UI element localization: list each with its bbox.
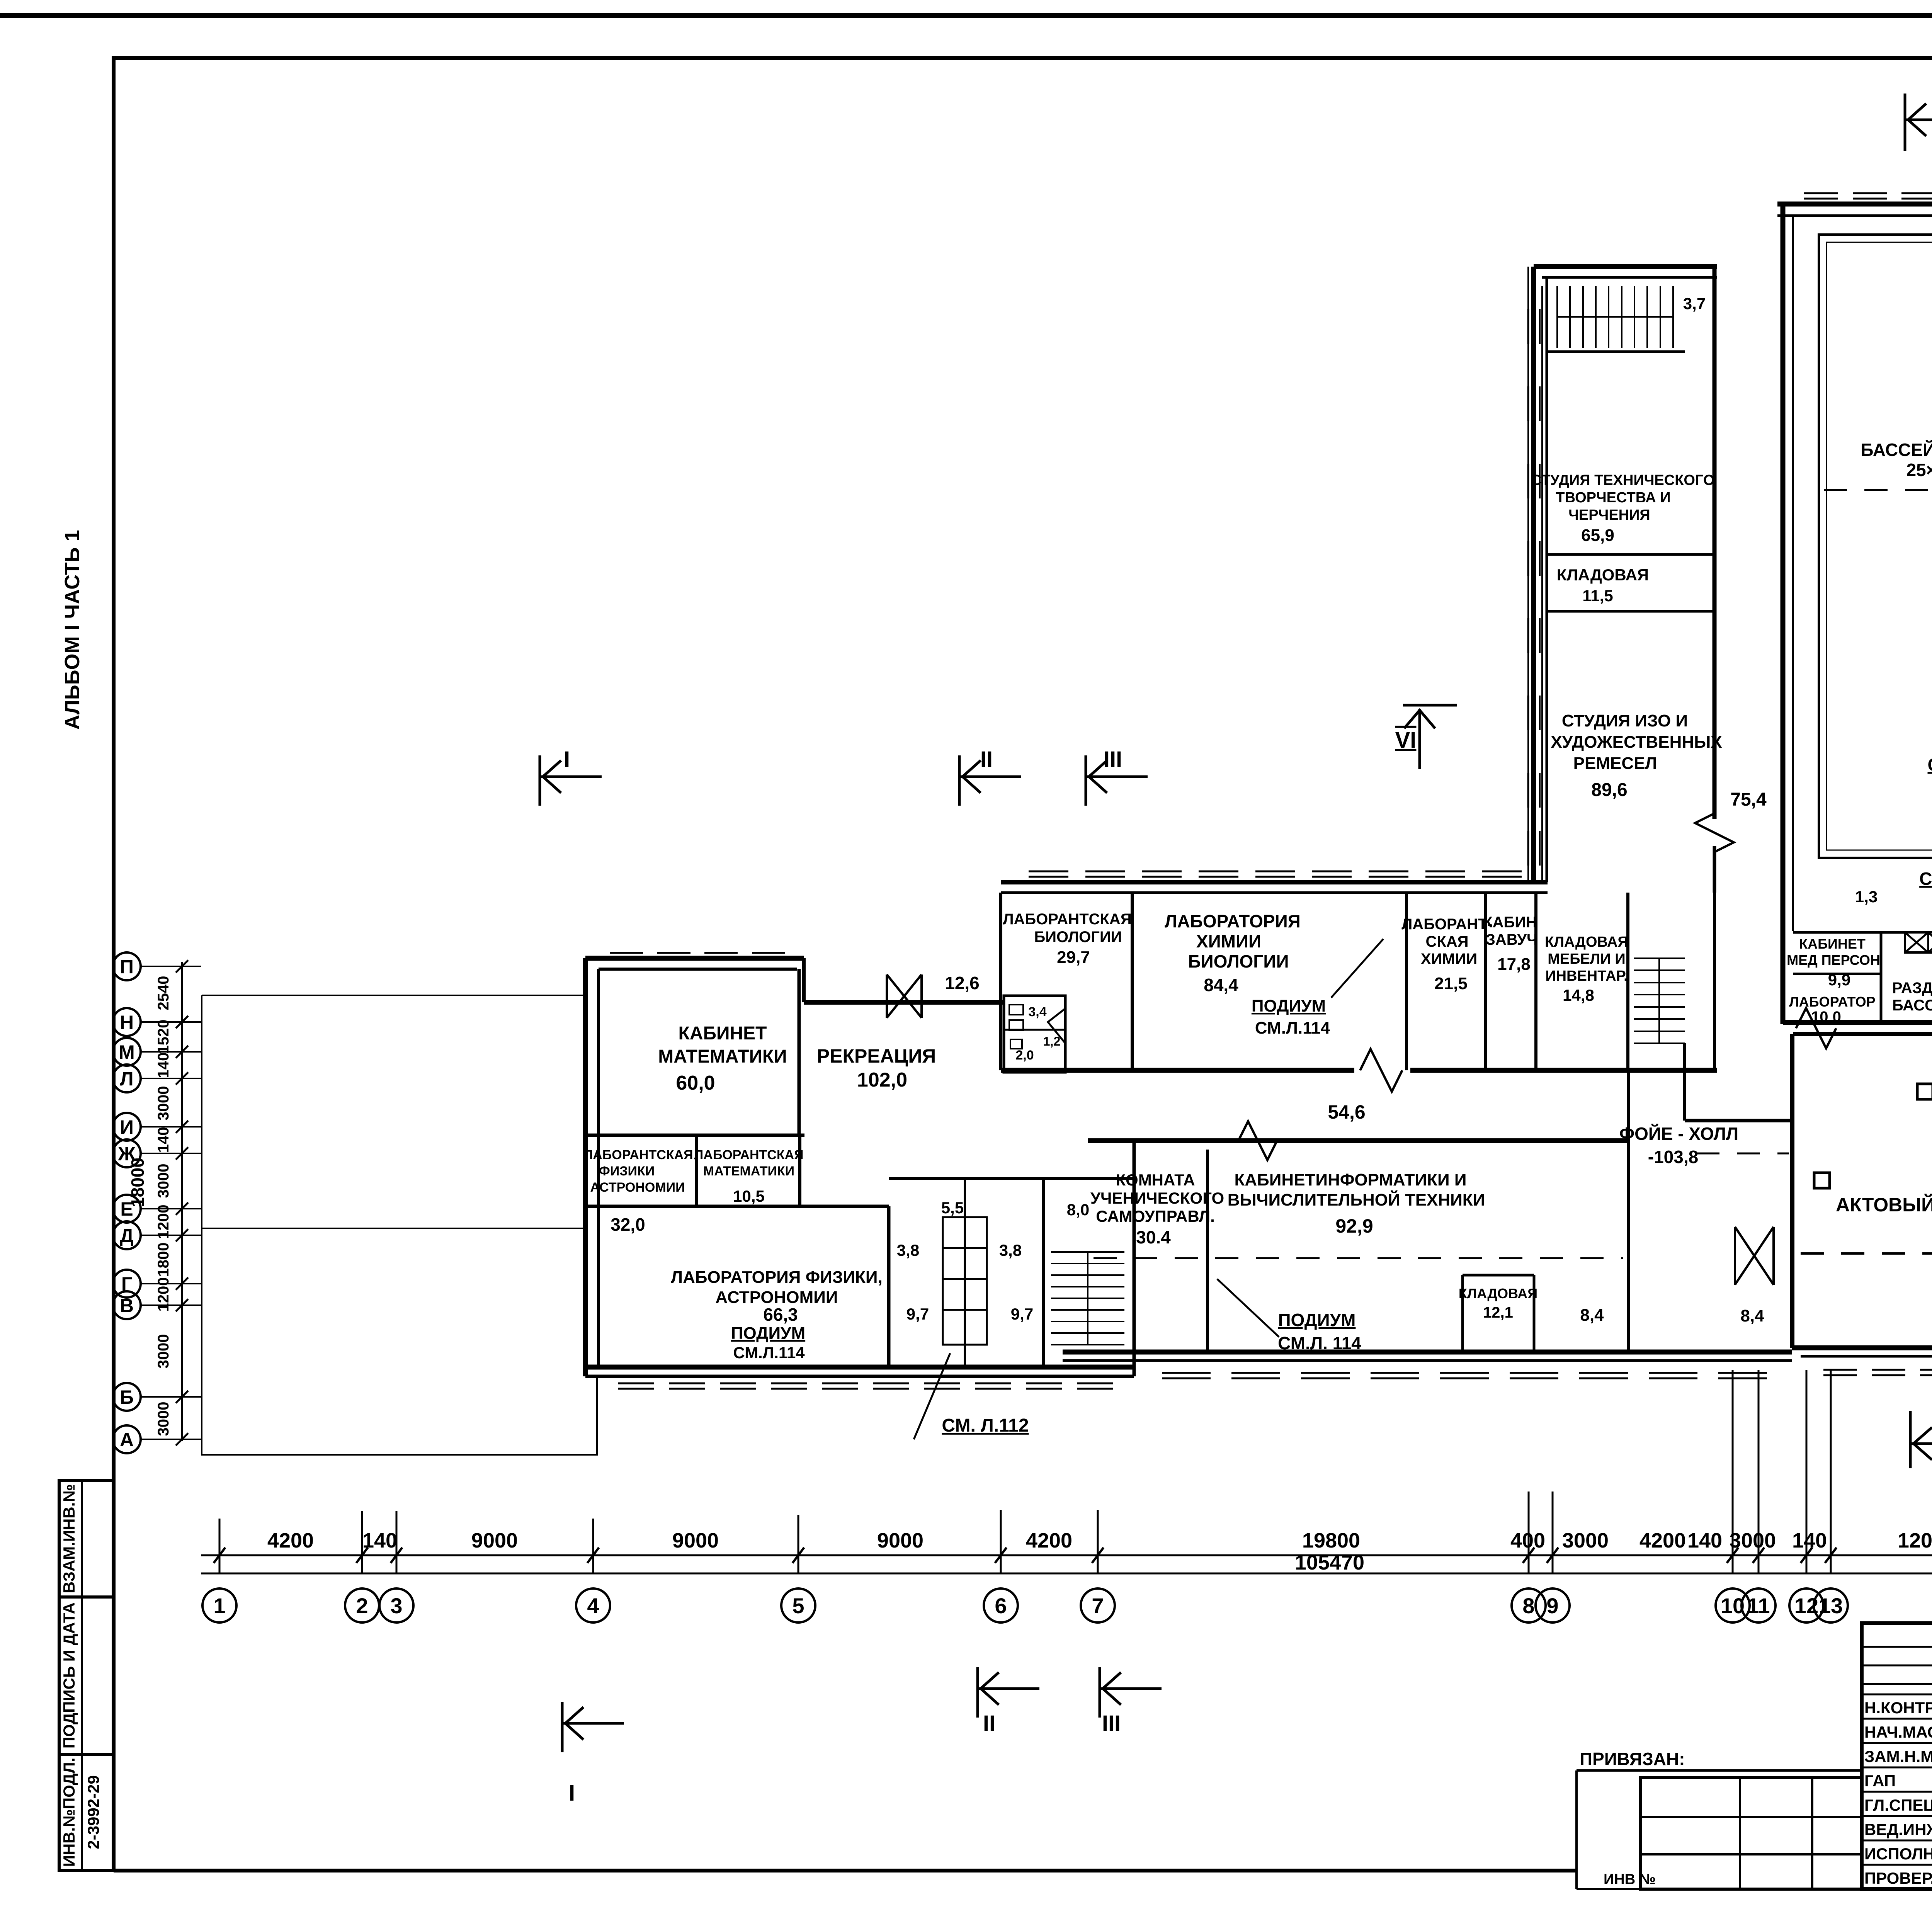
svg-text:ФИЗИКИ: ФИЗИКИ [599,1164,655,1179]
svg-text:Н.КОНТР.: Н.КОНТР. [1864,1699,1932,1717]
svg-text:ИНВ.№ПОДЛ.: ИНВ.№ПОДЛ. [60,1758,78,1867]
svg-text:12000: 12000 [1898,1529,1932,1552]
svg-text:9: 9 [1546,1594,1558,1618]
svg-text:ТВОРЧЕСТВА И: ТВОРЧЕСТВА И [1556,490,1670,506]
section mark III (top) [1086,755,1148,806]
title block [1577,1623,1932,1925]
left grid letter circles [113,952,201,1453]
grid line 10 [1732,1370,1734,1573]
section mark II (top) [959,755,1021,806]
svg-text:1: 1 [213,1594,225,1618]
grid number circles [202,1588,1932,1622]
svg-text:21,5: 21,5 [1434,974,1468,993]
ground floor outline (thin) [202,995,597,1455]
svg-text:3,7: 3,7 [1683,294,1706,313]
svg-text:ПОДИУМ: ПОДИУМ [1278,1310,1355,1330]
svg-text:КОМНАТА: КОМНАТА [1116,1171,1195,1189]
svg-text:3,4: 3,4 [1028,1005,1046,1019]
svg-text:11: 11 [1747,1594,1770,1618]
svg-text:14,8: 14,8 [1563,986,1594,1004]
svg-text:ЛАБОРАНТСКАЯ: ЛАБОРАНТСКАЯ [1003,911,1131,928]
svg-text:3: 3 [390,1594,402,1618]
section mark IV (top) [1905,94,1932,151]
svg-text:СТУДИЯ ТЕХНИЧЕСКОГО: СТУДИЯ ТЕХНИЧЕСКОГО [1531,472,1714,488]
labs block top outer wall [1001,880,1548,884]
svg-text:92,9: 92,9 [1335,1215,1373,1237]
svg-text:ЛАБОРАТОРИЯ: ЛАБОРАТОРИЯ [1165,911,1300,931]
svg-text:II: II [983,1711,995,1736]
section mark III (bottom) [1100,1667,1162,1718]
svg-text:84,4: 84,4 [1204,975,1238,995]
svg-text:АКТОВЫЙ ЗАЛ НА 160МЕСТ: АКТОВЫЙ ЗАЛ НА 160МЕСТ [1836,1194,1932,1216]
svg-text:ЛАБОРАНТСКАЯ: ЛАБОРАНТСКАЯ [694,1148,803,1162]
svg-text:ФОЙЕ - ХОЛЛ: ФОЙЕ - ХОЛЛ [1619,1124,1738,1144]
svg-text:СМ.Л.114: СМ.Л.114 [733,1344,805,1362]
svg-text:8,0: 8,0 [1067,1201,1089,1219]
svg-text:СМ. Л.112: СМ. Л.112 [942,1415,1029,1436]
svg-text:3000: 3000 [1562,1529,1609,1552]
svg-text:ХУДОЖЕСТВЕННЫХ: ХУДОЖЕСТВЕННЫХ [1551,733,1722,752]
svg-text:1200: 1200 [155,1277,172,1312]
svg-text:140: 140 [1792,1529,1827,1552]
svg-text:105470: 105470 [1295,1551,1364,1574]
svg-text:4200: 4200 [1639,1529,1686,1552]
svg-text:СМ.Л.112: СМ.Л.112 [1928,755,1932,775]
svg-text:3000: 3000 [155,1164,172,1198]
svg-text:11,5: 11,5 [1582,587,1613,605]
wall: rekreacia top [802,958,806,1002]
svg-text:12,1: 12,1 [1483,1304,1513,1321]
section mark I (top) [540,755,602,806]
grid line 6 [1000,1510,1002,1573]
svg-text:СМ.Л.114: СМ.Л.114 [1255,1019,1330,1037]
svg-text:УЧЕНИЧЕСКОГО: УЧЕНИЧЕСКОГО [1090,1189,1224,1207]
svg-text:ВЗАМ.ИНВ.№: ВЗАМ.ИНВ.№ [60,1484,78,1593]
studios column outer walls [1531,267,1536,882]
svg-text:КАБИНЕТ: КАБИНЕТ [1799,936,1866,952]
svg-text:КАБИНЕТИНФОРМАТИКИ И: КАБИНЕТИНФОРМАТИКИ И [1235,1170,1467,1189]
svg-text:М: М [119,1041,135,1063]
svg-text:1520: 1520 [155,1020,172,1054]
columns [1917,1084,1932,1099]
svg-text:ПОДПИСЬ И ДАТА: ПОДПИСЬ И ДАТА [60,1602,78,1748]
svg-text:75,4: 75,4 [1730,789,1767,810]
section mark I (bottom) [562,1702,624,1752]
svg-text:ЗАВУЧ: ЗАВУЧ [1486,931,1537,948]
svg-text:1200: 1200 [155,1205,172,1239]
stairwell left block [1051,1252,1124,1345]
svg-text:СКАЯ: СКАЯ [1426,933,1469,950]
svg-text:ГАП: ГАП [1864,1772,1896,1790]
svg-text:65,9: 65,9 [1581,526,1614,545]
corridor doors bottom studios [1695,813,1734,852]
svg-text:ВЫЧИСЛИТЕЛЬНОЙ ТЕХНИКИ: ВЫЧИСЛИТЕЛЬНОЙ ТЕХНИКИ [1228,1190,1485,1209]
svg-text:54,6: 54,6 [1328,1101,1365,1123]
svg-text:ЧЕРЧЕНИЯ: ЧЕРЧЕНИЯ [1568,507,1650,523]
svg-text:9,7: 9,7 [906,1305,929,1323]
svg-text:9,7: 9,7 [1011,1305,1033,1323]
svg-text:ХИМИИ: ХИМИИ [1196,931,1261,951]
svg-text:КЛАДОВАЯ: КЛАДОВАЯ [1557,566,1649,584]
svg-text:САМОУПРАВЛ.: САМОУПРАВЛ. [1096,1207,1215,1225]
svg-text:140: 140 [1687,1529,1722,1552]
svg-text:8,4: 8,4 [1740,1306,1764,1325]
grid line 7 [1097,1510,1099,1573]
grid line 2 [361,1511,363,1573]
kladovaja 12,1 [1463,1274,1534,1277]
svg-text:КЛАДОВАЯ: КЛАДОВАЯ [1459,1286,1537,1301]
section mark VI (left) [1403,705,1457,769]
svg-text:3000: 3000 [155,1334,172,1369]
svg-text:4200: 4200 [1026,1529,1072,1552]
svg-text:СТУДИЯ ИЗО И: СТУДИЯ ИЗО И [1562,711,1688,730]
svg-text:СМ. Л.112: СМ. Л.112 [1919,869,1932,889]
svg-text:60,0: 60,0 [676,1072,715,1094]
svg-text:17,8: 17,8 [1497,955,1531,974]
svg-text:ПРОВЕР.: ПРОВЕР. [1864,1869,1932,1887]
svg-text:5,5: 5,5 [941,1199,964,1217]
grid line 9 [1552,1492,1554,1573]
svg-text:1800: 1800 [155,1243,172,1277]
svg-text:400: 400 [1510,1529,1545,1552]
room kabinet matematiki [798,969,801,1135]
pool basin [1819,235,1932,858]
grid line 11 [1758,1370,1760,1573]
svg-text:3000: 3000 [155,1402,172,1436]
svg-text:АСТРОНОМИИ: АСТРОНОМИИ [715,1288,838,1307]
main south wall under pool/actovyi [1783,1020,1932,1025]
svg-text:25×8,5 М: 25×8,5 М [1906,460,1932,480]
svg-text:МАТЕМАТИКИ: МАТЕМАТИКИ [703,1164,794,1179]
svg-text:ИНВЕНТАР.: ИНВЕНТАР. [1545,968,1628,984]
svg-text:ПРИВЯЗАН:: ПРИВЯЗАН: [1580,1749,1685,1769]
svg-text:ПОДИУМ: ПОДИУМ [731,1324,805,1343]
svg-text:БИОЛОГИИ: БИОЛОГИИ [1034,929,1122,946]
svg-text:19800: 19800 [1302,1529,1360,1552]
grid line 4 [592,1519,594,1573]
svg-text:Л: Л [120,1068,133,1090]
grid line 1 [219,1519,221,1573]
left classroom block outer walls [585,956,804,961]
svg-text:АСТРОНОМИИ: АСТРОНОМИИ [590,1180,685,1195]
svg-text:2540: 2540 [155,976,172,1010]
laboratorija fiziki astronomii 66,3 [887,1206,891,1367]
svg-text:140: 140 [155,1053,172,1078]
svg-text:КАБИН: КАБИН [1483,914,1537,931]
svg-text:А: А [120,1429,134,1451]
svg-text:VI: VI [1395,728,1417,753]
svg-text:МАТЕМАТИКИ: МАТЕМАТИКИ [658,1046,787,1067]
svg-text:ИСПОЛН.: ИСПОЛН. [1864,1845,1932,1863]
svg-text:I: I [564,747,570,772]
svg-text:I: I [569,1781,575,1806]
pool hall outer walls [1777,202,1932,207]
svg-text:9000: 9000 [672,1529,719,1552]
labs partitions [999,893,1002,1070]
section mark II (bottom) [978,1667,1039,1718]
grid line 13 [1830,1370,1832,1573]
svg-text:И: И [120,1116,134,1138]
svg-text:РЕКРЕАЦИЯ: РЕКРЕАЦИЯ [817,1045,936,1067]
svg-text:Н: Н [120,1012,134,1033]
svg-text:102,0: 102,0 [857,1069,907,1091]
svg-text:РЕМЕСЕЛ: РЕМЕСЕЛ [1573,754,1657,773]
svg-text:НАЧ.МАСТ: НАЧ.МАСТ [1864,1723,1932,1741]
svg-text:4: 4 [587,1594,599,1618]
svg-text:30.4: 30.4 [1136,1227,1171,1247]
svg-text:III: III [1104,747,1122,772]
svg-text:ПОДИУМ: ПОДИУМ [1252,997,1326,1015]
laborantskaja fiziki astronomii [585,1205,889,1208]
svg-text:2: 2 [356,1594,368,1618]
svg-text:СМ.Л. 114: СМ.Л. 114 [1278,1333,1361,1353]
svg-text:10,5: 10,5 [733,1187,765,1205]
laborantskaja matematiki [798,1135,801,1206]
svg-text:ЗАМ.Н.М.: ЗАМ.Н.М. [1864,1747,1932,1765]
svg-text:ЛАБОРАТОРИЯ ФИЗИКИ,: ЛАБОРАТОРИЯ ФИЗИКИ, [671,1268,882,1287]
BUILDING PLAN [583,113,1932,1439]
svg-text:3,8: 3,8 [897,1241,919,1259]
svg-text:4200: 4200 [267,1529,314,1552]
studios windows left [1527,309,1529,344]
stair top of studios [1557,286,1673,348]
svg-text:5: 5 [792,1594,804,1618]
svg-text:Б: Б [120,1386,134,1408]
svg-text:ЛАБОРАТОР: ЛАБОРАТОР [1789,994,1875,1010]
actovyi zal [1790,1034,1794,1348]
grid line 5 [798,1515,799,1573]
svg-text:13: 13 [1819,1594,1843,1618]
svg-text:ЛАБОРАНТСКАЯ: ЛАБОРАНТСКАЯ [583,1148,693,1162]
svg-text:1,3: 1,3 [1855,888,1878,906]
svg-text:РАЗДЕВАЛЬНЫЕ И ДУШЕВЫЕ: РАЗДЕВАЛЬНЫЕ И ДУШЕВЫЕ [1892,980,1932,997]
svg-text:III: III [1102,1711,1121,1736]
svg-text:ВЕД.ИНЖ.: ВЕД.ИНЖ. [1864,1820,1932,1838]
svg-text:ГЛ.СПЕЦ.А: ГЛ.СПЕЦ.А [1864,1796,1932,1814]
svg-text:3,8: 3,8 [999,1241,1022,1259]
svg-text:140: 140 [155,1127,172,1153]
svg-text:П: П [120,956,134,978]
svg-text:II: II [980,747,993,772]
svg-text:БИОЛОГИИ: БИОЛОГИИ [1188,951,1289,971]
labs bottom wall / corridor [1001,1068,1354,1073]
svg-text:АЛЬБОМ I ЧАСТЬ 1: АЛЬБОМ I ЧАСТЬ 1 [61,530,84,730]
svg-text:Д: Д [120,1225,134,1247]
informatics block [1088,1138,1629,1143]
small sanitary rooms 3,4 2,0 1,2 [1004,996,1065,1072]
svg-text:18000: 18000 [128,1158,148,1207]
svg-text:66,3: 66,3 [763,1304,798,1325]
svg-text:3000: 3000 [1730,1529,1776,1552]
svg-text:2-3992-29: 2-3992-29 [84,1775,102,1849]
grid line 3 [396,1511,398,1573]
grid line 8 [1528,1492,1530,1573]
svg-text:8: 8 [1522,1594,1534,1618]
toilets block 5,5 3,8 3,8 9,7 9,7 [889,1177,1134,1180]
section cut marks [540,68,1932,1806]
svg-text:БАССЕЙНА: БАССЕЙНА [1892,996,1932,1014]
svg-text:12,6: 12,6 [945,973,980,993]
svg-text:ЛАБОРАНТ-: ЛАБОРАНТ- [1401,916,1493,933]
grid line 12 [1806,1370,1808,1573]
svg-text:1,2: 1,2 [1043,1034,1060,1048]
svg-text:ХИМИИ: ХИМИИ [1421,951,1477,968]
kladovaja 11,5 [1548,553,1714,556]
svg-text:КЛАДОВАЯ: КЛАДОВАЯ [1545,934,1628,950]
svg-text:БАССЕЙН С ВАННОЙ: БАССЕЙН С ВАННОЙ [1861,440,1932,460]
doors actovyi [1796,1008,1836,1048]
svg-text:МЕД ПЕРСОН: МЕД ПЕРСОН [1787,952,1880,968]
left stamp column [59,530,114,1871]
svg-text:В: В [120,1295,134,1316]
svg-text:89,6: 89,6 [1591,780,1627,800]
svg-text:140: 140 [362,1529,397,1552]
svg-text:8,4: 8,4 [1580,1306,1604,1325]
svg-text:МЕБЕЛИ И: МЕБЕЛИ И [1548,951,1626,967]
svg-text:2,0: 2,0 [1015,1048,1034,1063]
svg-text:9000: 9000 [471,1529,518,1552]
svg-text:6: 6 [995,1594,1007,1618]
furniture marks [1009,1005,1023,1015]
svg-text:9000: 9000 [877,1529,923,1552]
bottom dimension lines [201,1370,1932,1574]
svg-text:ИНВ №: ИНВ № [1604,1871,1656,1888]
section mark IV (bottom) [1910,1411,1932,1468]
svg-text:-103,8: -103,8 [1648,1147,1698,1167]
svg-text:7: 7 [1092,1594,1104,1618]
svg-text:32,0: 32,0 [611,1214,645,1235]
svg-text:3000: 3000 [155,1086,172,1121]
svg-text:29,7: 29,7 [1057,948,1090,967]
svg-text:КАБИНЕТ: КАБИНЕТ [679,1023,767,1044]
